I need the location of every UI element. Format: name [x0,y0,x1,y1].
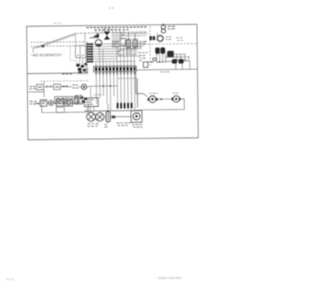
wire bottom-left row links [35,102,84,105]
wire long left feeder [27,72,87,75]
splice lug on motor wire [112,116,116,119]
relay frame K2 [113,41,119,47]
wire pair into fuse bank [119,33,147,36]
label right of DS1 [165,37,183,41]
motor pilot M0 [95,40,102,47]
svg-text:.....Guide 0 deviation: .....Guide 0 deviation [154,276,182,280]
defrost relay block [126,49,135,55]
wire stub rows near T1 [111,33,124,41]
pin numbers above TB2 [95,60,135,62]
wire lamp drop to timer [90,87,92,98]
junction blob left of TB2 [76,64,86,72]
connector box J1 [75,46,85,58]
relay arrow K1 [93,33,99,38]
switch S1 contacts [149,36,151,40]
label left of TB2 [62,69,89,74]
fan motor M2 [96,113,104,121]
label under right bus [160,71,170,73]
label fuse values [139,42,146,47]
heater row components [143,62,148,67]
lamp DS2 [81,84,86,89]
wire dashed drop to junction cluster [70,46,77,64]
label above CF1 [149,92,158,94]
wire plug drop [156,33,158,36]
control box CB [68,96,79,103]
wire diagonal companion [36,35,75,48]
wire dashed mid run [40,80,88,83]
extra junction lugs [79,71,82,73]
capacitor C1 [155,47,160,53]
contact block K2a [120,38,125,45]
terminal ladder TB1 [87,43,93,63]
wire dashed long run right [148,43,197,46]
plug P1 [161,25,165,29]
fuse F2 [133,40,137,48]
wire drop from L2 [87,42,89,45]
pushbutton box PB [55,97,67,104]
wire heater drops [176,64,183,70]
thermostat TH1 [150,58,160,62]
pilot lamp DS1 [157,36,163,42]
relay K3 [167,51,174,58]
wire top horizontal run [75,32,147,34]
capacitor C2 [160,47,165,53]
wire ties right cluster [165,54,190,60]
capacitor C3 [75,97,82,104]
terminal strip TB2 [94,61,137,74]
wire right loop return [137,99,184,110]
svg-text:+NO.SCHEMAT1C*: +NO.SCHEMAT1C* [31,53,63,57]
wire TM drops to bus [87,106,94,111]
condenser fan CF2 [173,96,179,102]
wire verticals from top label row [96,29,124,35]
wire riser companion [136,78,138,107]
node junctions on cross link [103,85,105,87]
wire capacitor drops [157,54,166,63]
relay R2 [56,99,63,106]
wire stub at diagonal foot [32,49,34,53]
wire tails below junction blobs [78,64,87,75]
transformer T1 core [104,32,110,36]
overload OL [49,100,54,105]
wire short link under strip [93,78,136,95]
wire motor row links [95,115,131,118]
pin lugs below TB2 [96,72,136,75]
wire fanout from ladder [93,43,147,61]
label right of resistor [105,125,108,128]
wire stubs above junction blobs [80,58,86,69]
label above CF2 [173,92,179,94]
svg-text:m-7-2: m-7-2 [6,277,14,281]
wire diagonal feeder [32,33,75,48]
label defrost row text [30,85,79,89]
heating element HR2 [178,59,183,64]
start relay SR [65,99,73,106]
label under compressor [116,123,130,126]
border frame of schematic [27,24,199,139]
wire between fans [158,98,172,100]
switch S3 [54,84,61,89]
label right of blocks [138,53,148,61]
wire dashed line L1 [31,41,86,44]
compressor COMP [131,111,142,123]
wire right loop riser [136,72,144,94]
switch S2 [37,84,44,89]
heating element HR1 [172,59,177,64]
wire cross link mid [88,85,117,87]
wire risers to bus [91,104,137,113]
wire TB2 pin drops [96,71,135,110]
fuse block outline [126,39,138,48]
auxiliary contact block [118,50,123,55]
wire drops from fuse bank to strip [99,45,134,63]
node splice on L2 [42,45,45,48]
timer box TM [84,98,98,107]
label lower-left text [30,101,40,104]
label top terminal numbers row [86,27,146,30]
condenser fan CF1 [149,96,156,103]
scan specks [109,7,111,9]
enclosure outline [42,104,89,113]
wire drop to switch S2 [43,81,45,84]
wire right bus to border [136,68,197,71]
wire bottom bus [84,110,137,113]
pin ticks above TB2 [96,63,134,67]
wire fuse risers [128,33,135,40]
connector drops with terminals [117,103,133,109]
fan motor M1 [87,112,96,121]
wire dashed line L2 [31,45,86,48]
label plug [168,26,175,29]
fuse F1 [127,40,131,48]
wire drop from L1 [84,33,86,44]
wire drop from diagonal to J1 [74,33,76,45]
wire dashed vertical at switch column [149,27,151,66]
scan specks above border [54,22,61,24]
wire upper right link [148,61,190,70]
label under fans [87,124,98,127]
junction cluster JC [81,96,87,103]
defrost timer DT [40,100,47,106]
wire mid-left links [28,86,88,97]
label above C3 [75,94,82,96]
label under compressor [132,125,143,128]
resistor RD [106,111,110,122]
label right cluster [176,59,187,61]
